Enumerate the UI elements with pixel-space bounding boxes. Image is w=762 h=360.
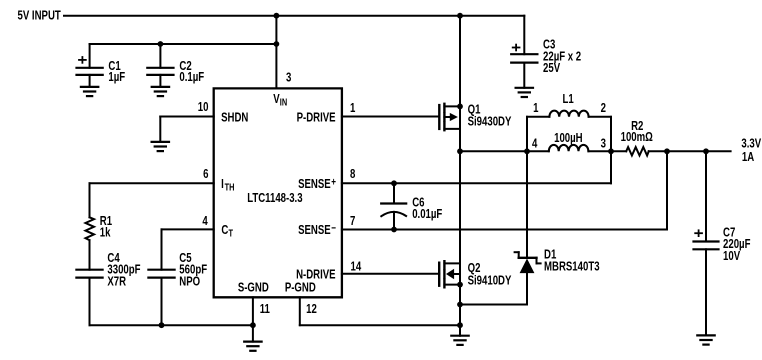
svg-text:P-GND: P-GND bbox=[285, 281, 316, 295]
svg-text:100mΩ: 100mΩ bbox=[621, 131, 653, 145]
svg-text:SHDN: SHDN bbox=[221, 111, 248, 125]
svg-text:T: T bbox=[229, 227, 234, 238]
svg-text:X7R: X7R bbox=[107, 275, 126, 289]
svg-text:SENSE: SENSE bbox=[298, 178, 331, 192]
svg-text:100µH: 100µH bbox=[554, 132, 583, 146]
svg-text:TH: TH bbox=[225, 181, 235, 192]
svg-text:12: 12 bbox=[306, 303, 317, 317]
svg-text:1: 1 bbox=[533, 102, 539, 116]
svg-text:1k: 1k bbox=[100, 226, 111, 240]
svg-text:Si9410DY: Si9410DY bbox=[468, 274, 512, 288]
svg-text:3.3V: 3.3V bbox=[741, 137, 761, 151]
svg-text:−: − bbox=[331, 222, 336, 235]
svg-text:+: + bbox=[331, 176, 336, 189]
svg-text:3: 3 bbox=[601, 137, 606, 151]
svg-text:4: 4 bbox=[532, 137, 538, 151]
svg-text:5V INPUT: 5V INPUT bbox=[18, 9, 61, 23]
svg-text:10V: 10V bbox=[723, 250, 740, 264]
svg-text:Si9430DY: Si9430DY bbox=[468, 115, 512, 129]
svg-text:14: 14 bbox=[351, 260, 362, 274]
svg-text:11: 11 bbox=[260, 303, 271, 317]
svg-text:6: 6 bbox=[203, 168, 208, 182]
svg-text:4: 4 bbox=[202, 215, 208, 229]
svg-text:IN: IN bbox=[280, 97, 287, 108]
svg-text:LTC1148-3.3: LTC1148-3.3 bbox=[247, 192, 302, 206]
svg-text:0.1µF: 0.1µF bbox=[179, 71, 204, 85]
svg-text:L1: L1 bbox=[563, 93, 575, 107]
svg-text:NPO: NPO bbox=[179, 275, 200, 289]
svg-text:1A: 1A bbox=[742, 151, 754, 165]
svg-text:8: 8 bbox=[350, 168, 355, 182]
svg-text:S-GND: S-GND bbox=[238, 281, 269, 295]
svg-text:MBRS140T3: MBRS140T3 bbox=[544, 260, 600, 274]
svg-text:10: 10 bbox=[198, 101, 209, 115]
svg-text:C: C bbox=[221, 224, 228, 238]
svg-text:25V: 25V bbox=[543, 62, 560, 76]
svg-text:0.01µF: 0.01µF bbox=[412, 208, 442, 222]
svg-text:P-DRIVE: P-DRIVE bbox=[297, 111, 336, 125]
svg-text:SENSE: SENSE bbox=[298, 224, 331, 238]
svg-text:I: I bbox=[221, 178, 224, 192]
svg-text:1µF: 1µF bbox=[108, 71, 125, 85]
svg-text:1: 1 bbox=[350, 102, 356, 116]
svg-text:N-DRIVE: N-DRIVE bbox=[296, 268, 336, 282]
svg-text:3: 3 bbox=[286, 71, 291, 85]
svg-text:7: 7 bbox=[350, 215, 355, 229]
svg-text:V: V bbox=[273, 93, 280, 107]
svg-text:2: 2 bbox=[601, 102, 606, 116]
